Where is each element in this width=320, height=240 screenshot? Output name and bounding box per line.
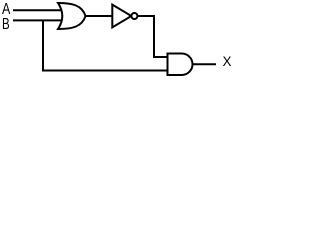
node A label <box>2 1 10 19</box>
wire B input <box>13 19 63 21</box>
wire A input <box>13 9 63 11</box>
wire inverter output right, down, into AND top input <box>138 16 168 57</box>
node X label <box>223 54 232 69</box>
inverter U2 bubble <box>131 13 137 19</box>
wire B branch down and right to AND lower input <box>43 20 168 70</box>
wire OR output to inverter input <box>84 15 113 17</box>
node B label <box>2 16 10 34</box>
and-gate U3 <box>168 54 193 76</box>
inverter U2 triangle <box>112 5 131 28</box>
or-gate U1 <box>58 3 86 29</box>
wire AND output to X <box>193 63 217 65</box>
